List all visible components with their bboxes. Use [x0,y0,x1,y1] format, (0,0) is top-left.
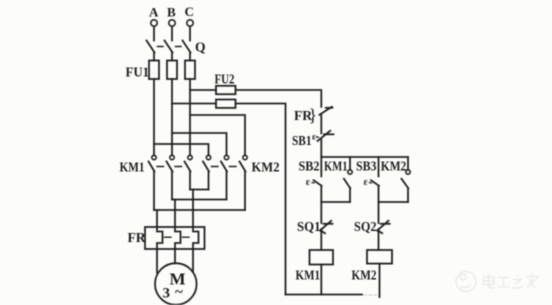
svg-text:KM2: KM2 [252,160,280,175]
svg-text:SB2: SB2 [299,159,320,174]
svg-text:FU2: FU2 [215,72,235,87]
svg-text:FU1: FU1 [126,65,150,80]
svg-text:SQ1: SQ1 [297,219,321,234]
svg-text:FR: FR [128,230,146,245]
svg-text:ε: ε [312,133,316,143]
svg-text:Q: Q [195,40,206,55]
svg-text:KM1: KM1 [120,160,145,175]
svg-text:KM1: KM1 [324,159,348,174]
svg-text:KM2: KM2 [381,159,407,174]
svg-text:KM2: KM2 [352,268,377,283]
svg-text:A: A [149,4,159,19]
svg-text:SB3: SB3 [356,159,377,174]
svg-text:3: 3 [163,286,171,302]
svg-text:ε: ε [306,177,311,188]
svg-text:C: C [185,4,194,19]
svg-text:KM1: KM1 [296,268,321,283]
svg-text:ε: ε [364,177,369,188]
svg-text:SB1: SB1 [292,133,312,148]
svg-text:}: } [309,105,318,125]
svg-text:SQ2: SQ2 [354,219,377,234]
svg-text:~: ~ [175,285,183,301]
svg-text:B: B [167,4,176,19]
